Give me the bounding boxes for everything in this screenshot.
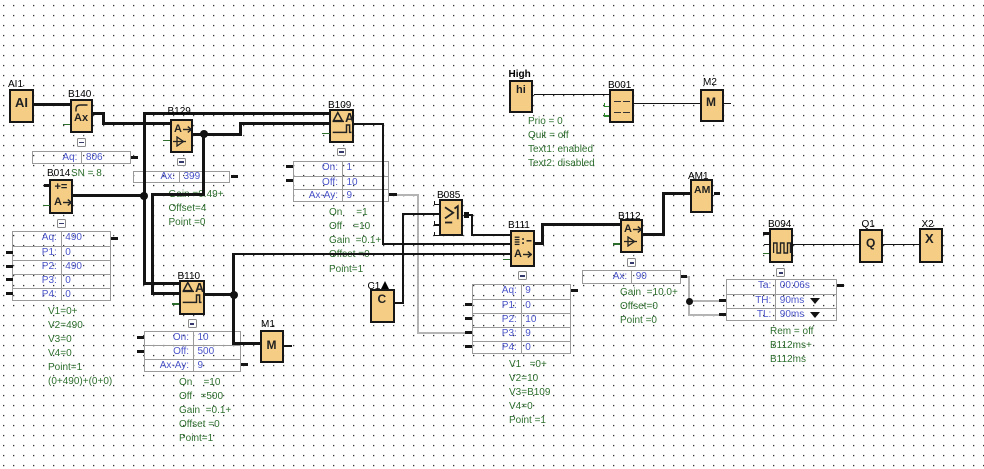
- wire B112 out to AM1 in: [662, 192, 691, 195]
- parameter pin B112: [613, 243, 620, 245]
- wire net B129 to B109 in2: [239, 122, 331, 125]
- table input tick B111 P3: [465, 331, 472, 334]
- param text B014 line4: [48, 348, 72, 359]
- table output tick B109 Ax-Ay: [389, 193, 397, 196]
- table input tick B014 P4: [6, 292, 13, 295]
- junction dot gray reference net: [686, 298, 693, 305]
- wire B111 out (vert jog): [541, 223, 544, 245]
- block text AM1: [694, 184, 710, 196]
- stub B085 in3: [434, 224, 441, 226]
- param text B111 line1: [509, 359, 547, 370]
- table input tick B094 TH: [719, 299, 727, 302]
- wire Q1 out to X2 in: [883, 244, 920, 245]
- gray reference wire to TH row: [688, 300, 719, 302]
- stub M2 out: [724, 103, 732, 104]
- stub hook B085 in4: [434, 232, 436, 236]
- block text B111 A-arrow: [514, 248, 522, 260]
- gray reference wire (vert x=688.6): [688, 276, 690, 316]
- dropdown arrow TH row: [810, 298, 820, 304]
- param text B110 line5: [179, 433, 213, 444]
- junction dot net B129: [200, 130, 208, 138]
- function block B112 (analog amplifier): [620, 219, 643, 253]
- wire net B110 (vert x=233.5): [232, 253, 235, 345]
- parameter table B110 (On/Off/Ax-Ay): [144, 331, 241, 372]
- wire net B129 (vert x=153 down): [151, 193, 154, 296]
- table input tick B111 P2: [465, 317, 472, 320]
- param text B001 line3: [528, 144, 593, 155]
- wire net B129 (vert jog x=240.6): [239, 122, 242, 135]
- parameter table B109 (On/Off/Ax-Ay): [293, 161, 389, 202]
- label Q1: [862, 219, 875, 230]
- icon B085 OR (≥1): [444, 204, 462, 225]
- label B112: [618, 211, 641, 222]
- icon B109 triangle-A: [332, 111, 354, 124]
- param text B112 line1: [620, 287, 678, 298]
- param text B001 line4: [528, 158, 595, 169]
- param text B001 line2: [528, 130, 569, 141]
- wire B110 out to junction: [205, 293, 236, 296]
- parameter table B129 (Ax 399): [133, 171, 230, 184]
- param text B109 line2: [329, 221, 370, 232]
- function block B140 (analog watchdog): [70, 99, 94, 133]
- function block B111 (analog multiplexer): [510, 230, 535, 268]
- block text M2: [706, 95, 716, 109]
- block text B014 A-arrow: [54, 196, 62, 208]
- param text B094 line2: [770, 340, 812, 351]
- function block B001 (message text): [609, 89, 634, 123]
- block text AI: [15, 95, 28, 110]
- collapse box B140: [77, 138, 86, 147]
- icon B109 pulse: [332, 123, 352, 134]
- wire net B014 to B109 in1: [143, 112, 331, 115]
- wire net B110 to B111 in3: [232, 253, 510, 256]
- param text B111 line3: [509, 387, 550, 398]
- wire B140 out (vert jog): [102, 112, 105, 125]
- table output tick Ax90: [681, 275, 687, 278]
- parameter table B094 (Ta/TH/TL): [726, 279, 838, 321]
- param text B014 line5: [48, 362, 82, 373]
- icon B094 pulse train: [773, 239, 791, 256]
- block text B129 A-arrow: [174, 123, 182, 135]
- wire B111 out (horiz): [535, 242, 545, 245]
- icon B112 amplifier: [624, 236, 638, 247]
- table output tick B094 Ta: [837, 284, 844, 287]
- param text B110 line1: [179, 377, 220, 388]
- parameter table B111 (Aq/P1-P4): [472, 284, 571, 354]
- block text hi: [516, 84, 526, 96]
- wire hi out to B001 in1: [534, 94, 610, 95]
- param text B109 line5: [329, 264, 363, 275]
- wire B129 out to junction: [193, 133, 242, 136]
- wire C1 out (horiz): [395, 302, 404, 304]
- collapse box B110: [188, 319, 197, 328]
- input block C1 (cursor key): [370, 289, 394, 324]
- parameter pin B094: [763, 253, 770, 255]
- label C1 with up-arrow: [368, 281, 390, 292]
- stub hook B085 in3: [434, 221, 436, 225]
- wire B112 out (horiz): [643, 233, 665, 236]
- gray reference wire B109-table to B111 P3 (horiz): [397, 194, 419, 196]
- wire B112 out (vert x=663): [662, 192, 665, 236]
- label B129: [168, 106, 191, 117]
- block text Q1: [866, 236, 875, 250]
- icon B140 curve: [74, 103, 90, 113]
- wire B001 out to M2 in: [634, 103, 701, 104]
- label B001: [608, 80, 631, 91]
- table input tick B109 Off: [286, 179, 294, 182]
- wire B111 out to B112 in1: [541, 223, 621, 226]
- label B085: [437, 190, 460, 201]
- gray reference wire (vert x=418): [417, 194, 419, 334]
- table input tick B094 TL: [719, 313, 727, 316]
- label AI1: [8, 79, 23, 90]
- wire B085 out (horiz): [469, 214, 473, 216]
- block text Ax: [74, 112, 88, 124]
- parameter table B014 (Aq/P1-P4): [12, 231, 110, 301]
- output block X2 (open connector): [919, 228, 943, 263]
- label B109: [328, 100, 351, 111]
- label AM1: [688, 171, 709, 182]
- block text X2: [925, 231, 934, 246]
- parameter pin B109: [322, 133, 330, 135]
- param text B140 SN: [71, 168, 102, 179]
- open input hook B001 in2 (green): [604, 103, 605, 107]
- wire net C1 (vert x=402.5): [402, 213, 404, 304]
- icon B001 dashes row2: [614, 112, 621, 114]
- parameter pin B129: [163, 140, 171, 142]
- parameter pin B014: [43, 205, 50, 207]
- param text B014 line3: [48, 334, 72, 345]
- param text B111 line2: [509, 373, 538, 384]
- block text B112 A-arrow: [624, 223, 632, 235]
- table output tick B111 Aq: [571, 289, 578, 292]
- parameter table B140 (Aq 806): [32, 151, 131, 164]
- param text B129 line3: [169, 217, 206, 228]
- parameter table B112 (Ax 90): [582, 270, 681, 284]
- label B110: [178, 271, 201, 282]
- wire net B014 to B110 in1: [143, 282, 181, 285]
- table input tick B014 P1: [6, 251, 13, 254]
- wire net B014 (vert x=144 up): [143, 112, 146, 197]
- icon B111 mux: [514, 236, 533, 246]
- table input tick B109 On: [286, 165, 294, 168]
- collapse box B111: [518, 271, 527, 280]
- param text B014 line2: [48, 320, 83, 331]
- param text B110 line4: [179, 419, 220, 430]
- wire B109 out (vert x=382.7): [382, 123, 384, 245]
- table input tick B111 P1: [465, 303, 472, 306]
- output block AM1 (analog flag): [690, 179, 714, 213]
- stub hook B085 in1: [434, 201, 436, 205]
- output block M2 (flag): [700, 89, 724, 123]
- stub B085 in4: [434, 235, 441, 237]
- block text C1: [378, 292, 387, 306]
- param text B094 line1: [770, 326, 813, 337]
- gray reference wire to TL row: [688, 314, 719, 316]
- label B014: [47, 168, 70, 179]
- stub B014 in1: [44, 184, 50, 188]
- wire net B129 (horiz y=194): [151, 193, 205, 196]
- param text B094 line3: [770, 354, 806, 365]
- function block B109 (analog threshold trigger): [329, 109, 353, 143]
- wire net C1 to B085 in2: [402, 213, 441, 215]
- gray reference wire into P3 row (horiz): [417, 332, 466, 334]
- wire net B014 (vert x=144 down): [143, 194, 146, 285]
- parameter pin B140: [63, 124, 71, 126]
- block text M1: [267, 338, 277, 352]
- table input tick B014 P3: [6, 278, 13, 281]
- icon B110 pulse: [182, 293, 202, 304]
- icon B001 dashes row1: [614, 101, 621, 103]
- table output tick Ax399: [231, 175, 238, 178]
- stub B094 in2: [764, 244, 770, 245]
- wire B109 out to B111 in2: [382, 243, 511, 245]
- block text B014 plus-equals: [55, 181, 68, 193]
- function block B085 (OR gate): [439, 199, 463, 236]
- parameter pin B111: [503, 259, 510, 261]
- label B140: [68, 89, 91, 100]
- param text B112 line3: [620, 315, 657, 326]
- table output tick B110 Ax-Ay: [241, 363, 248, 366]
- label High: [509, 69, 531, 80]
- wire B140 out (horiz): [93, 112, 104, 115]
- table input tick B014 P2: [6, 265, 13, 268]
- stub B094 in1: [763, 232, 770, 236]
- collapse box B109: [337, 148, 346, 157]
- input block High (hi): [509, 80, 533, 114]
- output marker square B085: [464, 212, 469, 217]
- collapse box B112: [627, 258, 636, 267]
- icon B110 triangle-A: [182, 281, 204, 294]
- param text B129 line1: [169, 189, 224, 200]
- param text B111 line4: [509, 401, 533, 412]
- table output tick Aq806: [131, 156, 138, 159]
- stub AM1 out: [714, 192, 721, 195]
- table input tick B110 On: [137, 336, 145, 339]
- junction dot net B110: [230, 291, 238, 299]
- function block B110 (analog threshold trigger): [179, 280, 205, 315]
- param text B110 line2: [179, 391, 223, 402]
- wire B109 out (horiz): [354, 123, 385, 125]
- label M2: [703, 77, 717, 88]
- label B111: [508, 220, 530, 231]
- function block B014 (analog math): [49, 179, 73, 214]
- wire net B129 (vert x=204 down): [202, 133, 205, 196]
- param text B109 line4: [329, 249, 370, 260]
- open input hook B001 in3 (green): [604, 113, 605, 117]
- param text B109 line3: [329, 235, 381, 246]
- param text B001 line1: [528, 116, 563, 127]
- function block B094 (asynchronous pulse generator): [769, 228, 793, 263]
- output block Q1: [859, 229, 883, 263]
- function block B129 (analog amplifier): [170, 119, 194, 153]
- wire B085 out to B111 in1: [471, 234, 511, 236]
- param text B110 line3: [179, 405, 231, 416]
- junction dot net B014: [140, 192, 148, 200]
- label M1: [261, 319, 275, 330]
- icon B129 amplifier: [173, 136, 187, 147]
- input block AI1: [9, 89, 34, 124]
- stub B085 in1: [434, 204, 441, 206]
- output block M1 (flag): [260, 330, 284, 363]
- wire B014 out to junction: [73, 194, 146, 197]
- wire B140 out to B129 in1: [103, 122, 171, 125]
- param text B112 line2: [620, 301, 658, 312]
- table input tick B110 Off: [137, 350, 145, 353]
- label B094: [768, 219, 791, 230]
- wire net B129 to B110 in2: [151, 292, 180, 295]
- collapse box B014: [57, 219, 66, 228]
- dropdown arrow TL row: [810, 312, 820, 318]
- collapse box B129: [177, 158, 186, 167]
- param text B129 line2: [169, 203, 207, 214]
- table input tick B111 P4: [465, 345, 472, 348]
- wire AI1 out to B140 in1: [34, 103, 70, 106]
- wire net B110 to M1 in: [232, 342, 260, 345]
- param text B109 line1: [329, 207, 368, 218]
- collapse box B094: [776, 268, 785, 277]
- table output tick B014 Aq: [111, 237, 118, 240]
- stub M1 out: [284, 345, 292, 348]
- wire B085 out (vert x=471.7): [471, 214, 473, 236]
- param text B014 line1: [48, 306, 77, 317]
- param text B014 line6: [48, 376, 112, 387]
- parameter pin B110: [172, 303, 180, 305]
- label X2: [922, 219, 934, 230]
- gray reference wire Ax90 to B094 table (horiz): [686, 276, 690, 278]
- wire B094 out to Q1 in: [793, 244, 860, 245]
- param text B111 line5: [509, 415, 546, 426]
